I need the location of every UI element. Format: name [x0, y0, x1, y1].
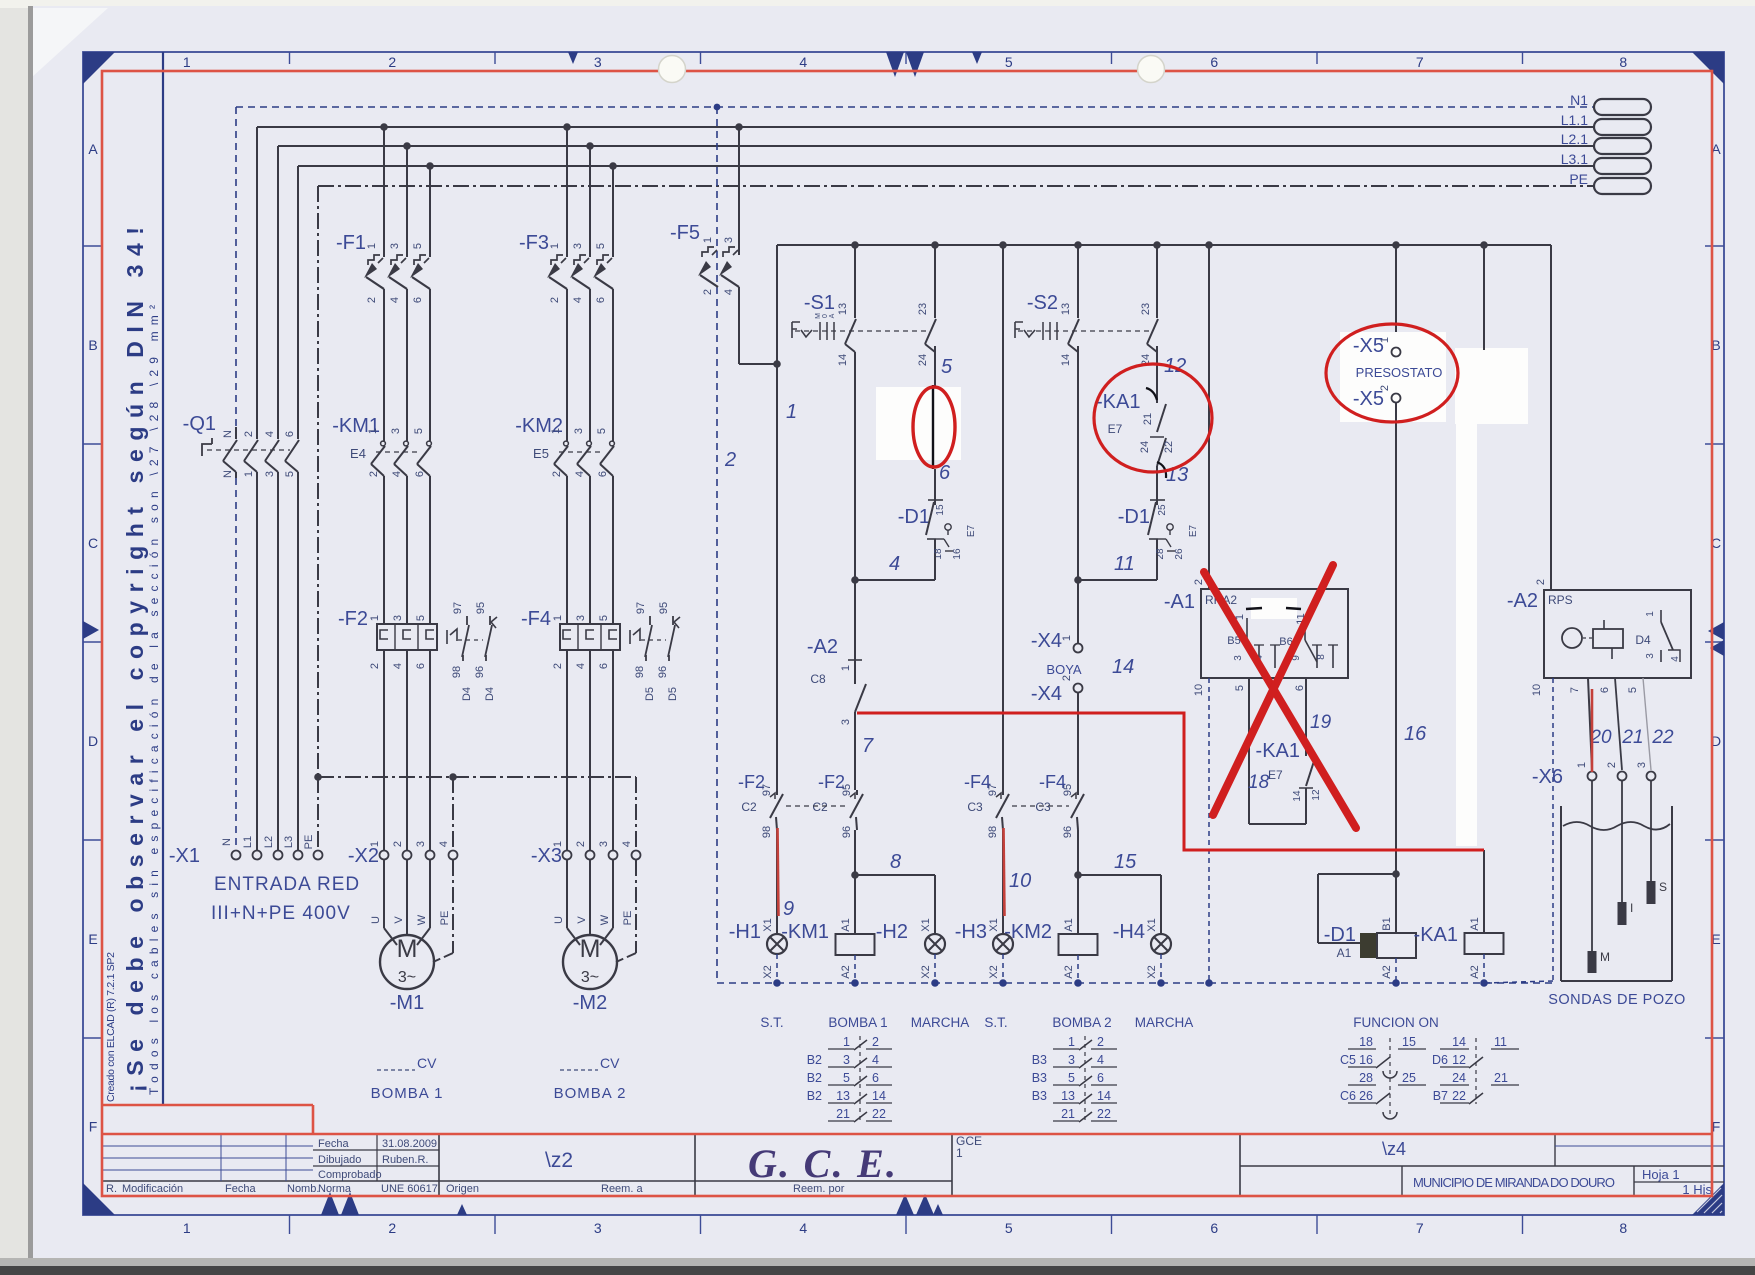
wire RPS neutral [1552, 678, 1554, 981]
svg-text:96: 96 [1062, 826, 1074, 838]
svg-text:-H4: -H4 [1113, 921, 1145, 943]
svg-text:3: 3 [594, 54, 602, 70]
contact table KM2 [1084, 1036, 1086, 1122]
svg-text:5: 5 [284, 471, 296, 477]
wire PE to X2-4 [452, 777, 454, 850]
svg-text:1: 1 [786, 401, 797, 423]
svg-text:97: 97 [987, 784, 999, 796]
wire A1 feed [1205, 241, 1213, 249]
svg-text:N: N [222, 430, 234, 438]
hand-drawn wire correction [932, 385, 934, 469]
svg-text:PE: PE [622, 911, 634, 926]
svg-text:BOMBA 1: BOMBA 1 [828, 1015, 887, 1030]
svg-text:21: 21 [1061, 1107, 1075, 1121]
bus link symbols [1594, 99, 1651, 115]
svg-text:6: 6 [415, 663, 427, 669]
svg-text:3: 3 [598, 841, 610, 847]
svg-text:V: V [576, 916, 588, 924]
svg-text:A1: A1 [1469, 917, 1481, 930]
wire PE to motor frame [452, 860, 454, 953]
svg-text:-A2: -A2 [807, 636, 838, 658]
svg-text:4: 4 [438, 841, 450, 847]
svg-text:E5: E5 [533, 446, 549, 461]
svg-text:C: C [88, 535, 98, 551]
svg-text:U: U [553, 916, 565, 924]
wire PE drop [317, 186, 319, 777]
svg-text:5: 5 [1005, 1220, 1013, 1236]
svg-text:25: 25 [1157, 504, 1168, 516]
svg-text:B2: B2 [807, 1089, 822, 1103]
svg-text:-X6: -X6 [1532, 766, 1563, 788]
red title block outline [103, 1133, 1711, 1136]
svg-text:2: 2 [369, 663, 381, 669]
frame column ticks top [289, 52, 291, 64]
svg-text:-X4: -X4 [1031, 630, 1062, 652]
svg-text:B2: B2 [807, 1053, 822, 1067]
wire 11 segment [1156, 555, 1158, 580]
svg-text:PE: PE [303, 835, 315, 850]
frame column ticks bottom [289, 1215, 291, 1234]
wire RPS pin6 to X6-2 [1615, 678, 1622, 770]
terminal X4 BOYA [1077, 580, 1079, 643]
svg-text:1: 1 [369, 615, 381, 621]
svg-text:-F3: -F3 [519, 232, 549, 254]
svg-text:C6: C6 [1340, 1089, 1356, 1103]
wire 7 segment [854, 712, 856, 790]
svg-text:14: 14 [1097, 1089, 1111, 1103]
svg-text:1: 1 [549, 243, 561, 249]
svg-text:X2: X2 [1146, 965, 1158, 978]
svg-text:24: 24 [1452, 1071, 1466, 1085]
svg-text:16: 16 [952, 548, 963, 560]
svg-text:4: 4 [621, 841, 633, 847]
svg-text:3: 3 [573, 428, 585, 434]
wire 13 segment [1156, 466, 1158, 505]
svg-text:1: 1 [369, 841, 381, 847]
svg-text:23: 23 [917, 303, 929, 315]
svg-text:14: 14 [1452, 1035, 1466, 1049]
svg-text:X2: X2 [920, 965, 932, 978]
svg-text:1: 1 [183, 54, 191, 70]
svg-text:22: 22 [1651, 727, 1674, 748]
svg-text:A1: A1 [1337, 946, 1352, 960]
svg-text:4: 4 [1097, 1053, 1104, 1067]
svg-text:-H2: -H2 [876, 921, 908, 943]
wire -X3 to motor -M2 [566, 860, 568, 928]
svg-text:1: 1 [1061, 635, 1073, 641]
svg-text:21: 21 [1621, 727, 1643, 748]
svg-text:26: 26 [1359, 1089, 1373, 1103]
svg-text:96: 96 [657, 666, 669, 678]
svg-text:13: 13 [836, 1089, 850, 1103]
svg-text:7: 7 [1416, 54, 1424, 70]
svg-text:6: 6 [1599, 687, 1611, 693]
svg-text:6: 6 [597, 471, 609, 477]
wire L3 to Q1 [297, 166, 299, 427]
svg-text:4: 4 [872, 1053, 879, 1067]
wire -F3 to -KM2 [566, 312, 568, 437]
svg-text:1: 1 [550, 428, 562, 434]
svg-text:1: 1 [243, 471, 255, 477]
whiteout patch X5 [1340, 332, 1446, 422]
title block grid [103, 1180, 952, 1182]
overload aux contacts -F2 97-98 95-96 [447, 629, 457, 644]
wire PE to X3-4 [635, 777, 637, 850]
svg-text:A: A [88, 141, 98, 157]
svg-text:6: 6 [1294, 685, 1306, 691]
whiteout band right [1455, 348, 1528, 424]
svg-text:D4: D4 [484, 687, 496, 701]
svg-text:18: 18 [1359, 1035, 1373, 1049]
motor -M1 [380, 935, 434, 989]
svg-text:Nomb.: Nomb. [287, 1183, 319, 1195]
wire -F1 to -KM1 [383, 312, 385, 437]
svg-text:M: M [815, 313, 822, 319]
svg-text:5: 5 [598, 615, 610, 621]
whiteout patch near wire 5 [876, 387, 961, 460]
svg-text:22: 22 [1452, 1089, 1466, 1103]
svg-text:A2: A2 [1063, 965, 1075, 978]
svg-text:E7: E7 [1108, 422, 1123, 436]
wire PE branch horizontal [318, 776, 636, 778]
svg-text:-A1: -A1 [1164, 591, 1195, 613]
svg-text:1: 1 [366, 243, 378, 249]
red circle KA1 contact [1094, 364, 1212, 472]
node D1 junction [1392, 870, 1400, 878]
svg-text:Fecha: Fecha [225, 1183, 256, 1195]
svg-text:11: 11 [1114, 553, 1135, 575]
svg-text:L3.1: L3.1 [1561, 151, 1588, 167]
hand-drawn contact fix bottom [1157, 462, 1166, 478]
svg-text:B3: B3 [1032, 1053, 1047, 1067]
svg-text:1: 1 [1379, 337, 1391, 343]
svg-text:2: 2 [392, 841, 404, 847]
svg-text:L2: L2 [263, 836, 275, 848]
svg-text:E7: E7 [966, 524, 977, 537]
svg-text:7: 7 [862, 735, 874, 757]
svg-text:-M2: -M2 [573, 992, 607, 1014]
svg-text:24: 24 [1139, 441, 1151, 453]
svg-text:14: 14 [837, 354, 849, 366]
wire 12 segment [1156, 346, 1158, 385]
frame corner triangles [83, 52, 115, 84]
svg-text:4: 4 [799, 54, 807, 70]
svg-text:-S2: -S2 [1027, 292, 1058, 314]
svg-text:S: S [1659, 880, 1667, 894]
svg-text:2: 2 [1379, 385, 1391, 391]
wire control riser 1 [776, 245, 778, 790]
svg-text:96: 96 [841, 826, 853, 838]
svg-text:15: 15 [1114, 851, 1137, 873]
svg-text:A: A [829, 313, 836, 318]
svg-text:4: 4 [723, 289, 735, 295]
svg-text:6: 6 [1097, 1071, 1104, 1085]
svg-text:S.T.: S.T. [760, 1015, 783, 1030]
svg-text:3: 3 [1233, 655, 1244, 661]
svg-text:23: 23 [1140, 303, 1152, 315]
svg-text:D5: D5 [667, 687, 679, 701]
svg-text:Modificación: Modificación [122, 1183, 183, 1195]
wire RPS pin5 to X6-3 [1643, 678, 1651, 770]
svg-text:3: 3 [575, 615, 587, 621]
svg-text:5: 5 [413, 428, 425, 434]
svg-text:8: 8 [1316, 654, 1327, 660]
svg-text:-KM1: -KM1 [781, 921, 829, 943]
contact table D6-B7 [1475, 1038, 1477, 1104]
bus L2.1 [278, 145, 1593, 147]
svg-text:-Q1: -Q1 [183, 413, 216, 435]
red circle wire 5-6 [913, 387, 955, 467]
svg-text:12: 12 [1452, 1053, 1466, 1067]
whiteout patch A1 [1251, 598, 1297, 619]
svg-text:4: 4 [572, 297, 584, 303]
node 15 junction [1074, 871, 1082, 879]
svg-text:6: 6 [284, 431, 296, 437]
svg-text:2: 2 [1606, 762, 1618, 768]
wire 16 segment [1395, 403, 1397, 874]
hand-drawn A1 jumper marks [1246, 608, 1262, 609]
svg-text:95: 95 [1062, 784, 1074, 796]
svg-text:6: 6 [1210, 1220, 1218, 1236]
svg-text:-D1: -D1 [898, 506, 930, 528]
fold marks [83, 621, 99, 639]
wire bus to A2 RPS [1550, 245, 1552, 590]
svg-text:97: 97 [452, 602, 464, 614]
svg-text:-F5: -F5 [670, 222, 700, 244]
wire D1 contact to node 4 [934, 555, 936, 580]
svg-text:3: 3 [1068, 1053, 1075, 1067]
svg-text:-F4: -F4 [521, 608, 551, 630]
svg-text:95: 95 [841, 784, 853, 796]
svg-text:22: 22 [1163, 441, 1175, 453]
wire N to Q1 [235, 107, 237, 427]
svg-text:III+N+PE 400V: III+N+PE 400V [211, 903, 351, 924]
svg-text:M: M [397, 935, 418, 963]
control neutral bus [717, 982, 1553, 984]
svg-text:X1: X1 [920, 918, 932, 931]
svg-text:2: 2 [1097, 1035, 1104, 1049]
svg-text:21: 21 [836, 1107, 850, 1121]
svg-text:PE: PE [439, 911, 451, 926]
electrode M [1591, 781, 1593, 951]
svg-text:1: 1 [367, 428, 379, 434]
svg-text:1: 1 [1576, 762, 1588, 768]
svg-text:95: 95 [475, 602, 487, 614]
bus PE [318, 185, 1593, 187]
svg-text:-F2: -F2 [338, 608, 368, 630]
svg-text:4: 4 [799, 1220, 807, 1236]
svg-text:3: 3 [840, 719, 852, 725]
svg-text:W: W [599, 914, 611, 925]
svg-text:\z4: \z4 [1382, 1139, 1406, 1159]
svg-text:F: F [89, 1119, 98, 1135]
svg-text:A2: A2 [1469, 965, 1481, 978]
svg-text:1: 1 [702, 237, 714, 243]
svg-text:FUNCION ON: FUNCION ON [1353, 1015, 1439, 1030]
svg-text:4: 4 [389, 297, 401, 303]
svg-text:2: 2 [702, 289, 714, 295]
svg-text:16: 16 [1359, 1053, 1373, 1067]
punch hole top right [1138, 56, 1165, 83]
svg-text:3~: 3~ [581, 969, 599, 986]
svg-text:R.: R. [106, 1183, 117, 1195]
svg-text:24: 24 [917, 354, 929, 366]
svg-text:-A2: -A2 [1507, 590, 1538, 612]
red overdraw wire 9 [778, 828, 779, 916]
red modification wire A2 to KA1 [857, 713, 1484, 850]
svg-text:B2: B2 [807, 1071, 822, 1085]
svg-text:SONDAS DE POZO: SONDAS DE POZO [1548, 992, 1686, 1008]
svg-text:18: 18 [1248, 772, 1270, 793]
svg-text:BOYA: BOYA [1046, 662, 1081, 677]
svg-text:97: 97 [635, 602, 647, 614]
svg-text:PRESOSTATO: PRESOSTATO [1356, 365, 1443, 380]
svg-text:7: 7 [1569, 687, 1581, 693]
svg-text:-KA1: -KA1 [1256, 740, 1300, 762]
svg-text:Reem. a: Reem. a [601, 1183, 643, 1195]
svg-text:4: 4 [575, 663, 587, 669]
svg-text:L1.1: L1.1 [1561, 112, 1588, 128]
label CV [377, 1069, 415, 1071]
svg-text:C5: C5 [1340, 1053, 1356, 1067]
node F5-bus junction [773, 360, 781, 368]
svg-text:Comprobado: Comprobado [318, 1169, 382, 1181]
svg-text:4: 4 [264, 431, 276, 437]
svg-text:2: 2 [872, 1035, 879, 1049]
svg-text:4: 4 [392, 663, 404, 669]
contact table KM1 [859, 1036, 861, 1122]
margin separator line [162, 52, 164, 1105]
svg-text:C3: C3 [1035, 800, 1051, 814]
electrode I [1621, 781, 1623, 902]
svg-text:Norma: Norma [318, 1183, 352, 1195]
svg-text:6: 6 [412, 297, 424, 303]
svg-text:3: 3 [572, 243, 584, 249]
red overdraw RPS pin7 [1591, 689, 1594, 772]
svg-text:Origen: Origen [446, 1183, 479, 1195]
svg-text:MARCHA: MARCHA [911, 1015, 970, 1030]
svg-text:X2: X2 [988, 965, 1000, 978]
svg-text:2: 2 [724, 449, 736, 471]
node 4 junction [851, 576, 859, 584]
svg-text:-X4: -X4 [1031, 683, 1062, 705]
svg-text:1: 1 [552, 841, 564, 847]
bus N1 [236, 106, 1593, 108]
wire PE to motor frame [635, 860, 637, 953]
svg-text:2: 2 [388, 54, 396, 70]
svg-text:8: 8 [1619, 1220, 1627, 1236]
svg-text:2: 2 [575, 841, 587, 847]
frame row ticks [83, 245, 103, 247]
svg-text:4: 4 [889, 553, 900, 575]
svg-text:0: 0 [822, 314, 829, 318]
svg-text:8: 8 [1619, 54, 1627, 70]
svg-text:D6: D6 [1432, 1053, 1448, 1067]
svg-text:BOMBA 2: BOMBA 2 [554, 1085, 627, 1102]
svg-text:7: 7 [1416, 1220, 1424, 1236]
svg-text:Fecha: Fecha [318, 1138, 349, 1150]
svg-text:31.08.2009: 31.08.2009 [382, 1138, 437, 1150]
wire 8 branch to H2 [855, 874, 935, 876]
svg-text:X2: X2 [762, 965, 774, 978]
svg-text:U: U [370, 916, 382, 924]
svg-text:L3: L3 [283, 836, 295, 848]
svg-text:15: 15 [935, 504, 946, 516]
svg-text:5: 5 [941, 356, 953, 378]
svg-text:A1: A1 [1063, 918, 1075, 931]
svg-text:2: 2 [551, 471, 563, 477]
svg-text:B1: B1 [1381, 917, 1393, 930]
S1 contact 23-24 [931, 241, 939, 249]
svg-text:2: 2 [243, 431, 255, 437]
svg-text:5: 5 [1068, 1071, 1075, 1085]
svg-text:1: 1 [1645, 611, 1656, 617]
svg-text:3: 3 [392, 615, 404, 621]
wire A1 pin5 loop [1248, 678, 1250, 824]
S2 contact 23-24 [1153, 241, 1161, 249]
svg-text:4: 4 [574, 471, 586, 477]
svg-text:E4: E4 [350, 446, 366, 461]
svg-text:9: 9 [783, 898, 794, 920]
svg-text:19: 19 [1310, 712, 1332, 733]
svg-text:97: 97 [761, 784, 773, 796]
svg-text:-KA1: -KA1 [1414, 924, 1458, 946]
svg-text:6: 6 [872, 1071, 879, 1085]
svg-text:X1: X1 [762, 918, 774, 931]
wire node4 to A2 contact [854, 580, 856, 660]
svg-text:2: 2 [388, 1220, 396, 1236]
electrode S [1650, 781, 1652, 881]
svg-text:UNE 60617: UNE 60617 [381, 1183, 438, 1195]
svg-text:1: 1 [183, 1220, 191, 1236]
hand-drawn contact fix top [1146, 388, 1157, 400]
svg-text:-H1: -H1 [729, 921, 761, 943]
svg-text:98: 98 [761, 826, 773, 838]
svg-text:8: 8 [890, 851, 901, 873]
svg-text:A1: A1 [840, 918, 852, 931]
svg-text:C3: C3 [967, 800, 983, 814]
svg-text:BOMBA 1: BOMBA 1 [371, 1085, 444, 1102]
svg-text:Creado con ELCAD (R) 7.2.1 SP2: Creado con ELCAD (R) 7.2.1 SP2 [105, 952, 117, 1102]
wire -F4 to -X3 [566, 660, 568, 850]
svg-text:Dibujado: Dibujado [318, 1154, 361, 1166]
svg-text:1: 1 [552, 615, 564, 621]
svg-text:X1: X1 [1146, 918, 1158, 931]
svg-text:98: 98 [451, 666, 463, 678]
wire N1 control drop [716, 107, 718, 983]
motor -M2 [563, 935, 617, 989]
svg-text:N: N [221, 838, 233, 846]
svg-text:2: 2 [368, 471, 380, 477]
svg-text:3: 3 [1645, 653, 1656, 659]
svg-text:14: 14 [1112, 656, 1134, 678]
wire L2 to Q1 [277, 146, 279, 427]
svg-text:-X1: -X1 [169, 845, 200, 867]
svg-text:Hoja 1: Hoja 1 [1642, 1167, 1680, 1182]
svg-text:C2: C2 [812, 800, 828, 814]
svg-text:\z2: \z2 [545, 1149, 573, 1172]
svg-text:2: 2 [1535, 579, 1547, 585]
svg-text:-D1: -D1 [1118, 506, 1150, 528]
svg-text:N: N [222, 470, 234, 478]
wire KM2 coil feed [1077, 830, 1079, 934]
svg-text:5: 5 [412, 243, 424, 249]
svg-text:21: 21 [1494, 1071, 1508, 1085]
svg-text:3: 3 [415, 841, 427, 847]
svg-text:5: 5 [843, 1071, 850, 1085]
svg-text:2: 2 [366, 297, 378, 303]
wire KM1 coil feed [854, 830, 856, 934]
